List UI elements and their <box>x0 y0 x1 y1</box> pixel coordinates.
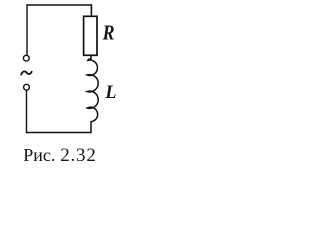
wire left vertical (source top lead) <box>26 4 28 55</box>
AC source lower terminal <box>24 84 30 90</box>
inductor L (4 loops) <box>87 55 98 121</box>
resistor R <box>84 16 97 55</box>
AC source tilde symbol <box>21 71 32 74</box>
AC source upper terminal <box>23 55 29 61</box>
wire right top stub into resistor <box>90 4 92 16</box>
wire top horizontal <box>27 4 92 6</box>
wire left vertical (source bottom lead) <box>26 90 28 133</box>
svg-text:R: R <box>102 22 115 45</box>
svg-text:L: L <box>104 81 116 103</box>
wire stub inductor to bottom <box>90 121 92 133</box>
svg-text:Рис.2.32: Рис.2.32 <box>23 145 96 166</box>
wire bottom horizontal <box>26 132 91 134</box>
